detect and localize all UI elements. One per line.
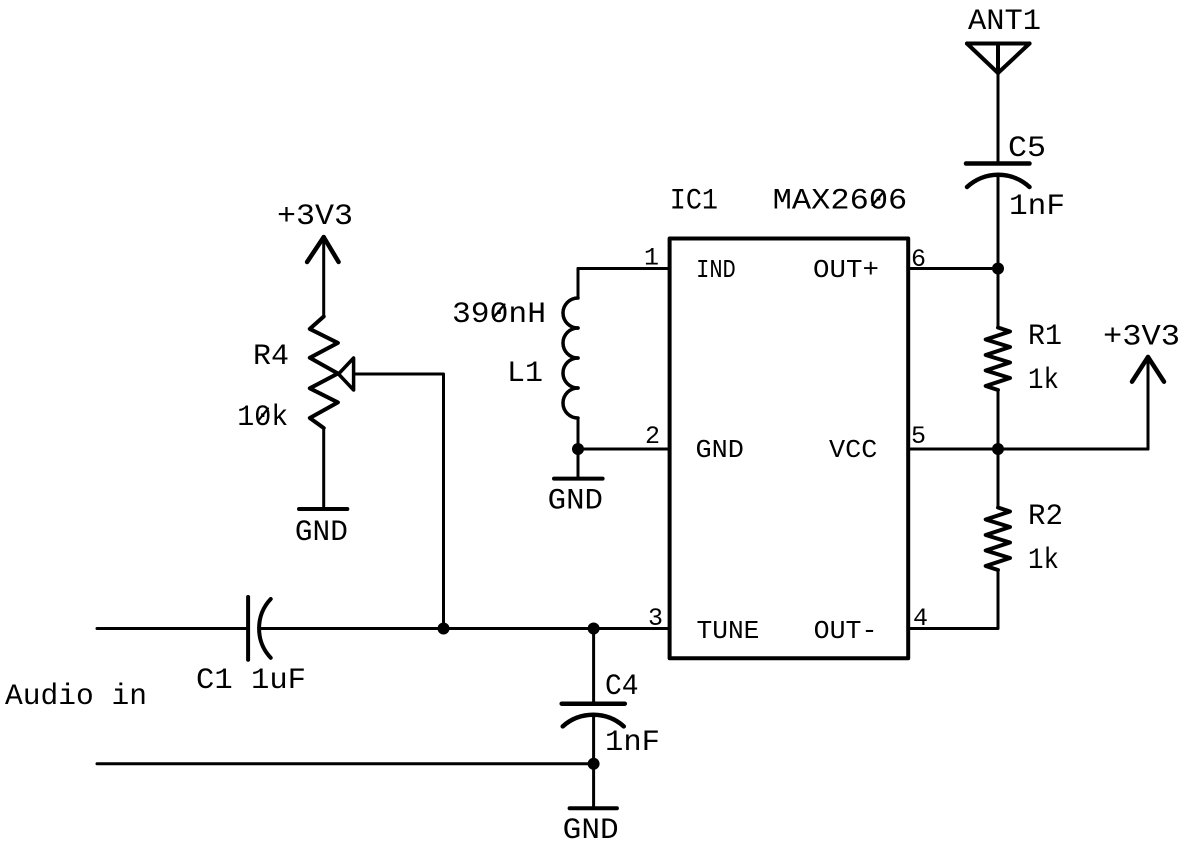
svg-text:L1: L1 (507, 357, 543, 391)
svg-text:GND: GND (295, 516, 348, 550)
svg-text:Audio in: Audio in (5, 680, 147, 714)
svg-text:1: 1 (644, 244, 659, 273)
svg-text:OUT+: OUT+ (813, 255, 879, 285)
svg-text:4: 4 (913, 604, 928, 633)
resistor R2 (986, 508, 1010, 571)
wire audio in top (97, 627, 246, 630)
node junction C4/tune (588, 623, 600, 635)
svg-text:R1: R1 (1028, 320, 1062, 354)
svg-text:GND: GND (548, 484, 603, 518)
svg-text:C5: C5 (1008, 132, 1046, 166)
svg-text:1nF: 1nF (605, 726, 660, 760)
svg-text:MAX2606: MAX2606 (773, 185, 908, 219)
capacitor C4 (562, 704, 625, 727)
svg-text:ANT1: ANT1 (968, 5, 1041, 39)
wire bottom node to ground (592, 764, 595, 807)
node junction pin6 (992, 263, 1004, 275)
svg-text:1k: 1k (1028, 544, 1059, 578)
svg-text:1nF: 1nF (1009, 190, 1065, 224)
ground under R4 (299, 507, 347, 511)
svg-text:6: 6 (911, 245, 926, 274)
svg-text:3: 3 (648, 604, 663, 633)
resistor R1 (986, 328, 1010, 391)
wire node to R1 (997, 269, 1000, 328)
node junction pin5 (992, 443, 1004, 455)
wire wiper to tune net (354, 374, 444, 629)
svg-text:390nH: 390nH (452, 298, 546, 332)
wire L1 to node (577, 418, 580, 449)
wire pin 1 (578, 267, 668, 270)
wire node to R2 (997, 449, 1000, 508)
node junction wiper/tune (438, 623, 450, 635)
svg-text:C1 1uF: C1 1uF (196, 664, 306, 698)
antenna ANT1 (967, 44, 1030, 74)
ground under L1 (554, 477, 603, 481)
wire C5 to node (997, 176, 1000, 269)
wire tune node to C4 (592, 629, 595, 703)
svg-text:5: 5 (911, 422, 926, 451)
wire node to ground (577, 449, 580, 477)
node junction bottom (588, 758, 600, 770)
svg-text:C4: C4 (605, 670, 639, 704)
wiper arrow R4 (339, 358, 354, 390)
capacitor C1 (248, 597, 271, 660)
wire pin 6 (910, 267, 998, 270)
capacitor C5 (966, 164, 1030, 188)
svg-text:R2: R2 (1028, 500, 1063, 534)
svg-text:IND: IND (696, 255, 736, 285)
svg-text:10k: 10k (237, 401, 288, 435)
svg-text:1k: 1k (1028, 364, 1059, 398)
power +3V3 right (1147, 357, 1150, 449)
wire R4 to ground (322, 428, 325, 507)
svg-text:+3V3: +3V3 (1103, 321, 1180, 355)
wire pin 5 to +3V3 (910, 448, 1148, 451)
svg-text:2: 2 (645, 422, 660, 451)
svg-text:IC1: IC1 (670, 185, 718, 219)
potentiometer R4 (310, 317, 338, 429)
svg-text:TUNE: TUNE (697, 616, 760, 646)
svg-text:R4: R4 (253, 340, 289, 374)
svg-text:OUT-: OUT- (814, 616, 878, 646)
node junction pin2 (572, 443, 584, 455)
power +3V3 left (322, 237, 325, 317)
ground under C4 (570, 806, 617, 810)
inductor L1 (577, 269, 580, 299)
wire C4 to bottom node (592, 715, 595, 764)
wire pin 2 (578, 448, 668, 451)
wire R2 to pin 4 (910, 570, 998, 629)
svg-text:GND: GND (563, 814, 619, 847)
wire C1 to pin 3 (261, 627, 669, 630)
slashed zero marks (258, 192, 884, 421)
svg-text:GND: GND (696, 435, 744, 465)
svg-text:+3V3: +3V3 (277, 200, 353, 234)
wire R1 to node (997, 390, 1000, 449)
IC U1 box MAX2606 (670, 239, 909, 659)
wire audio in bottom (97, 762, 594, 765)
wire antenna to C5 (997, 73, 1000, 163)
svg-text:VCC: VCC (829, 435, 877, 465)
